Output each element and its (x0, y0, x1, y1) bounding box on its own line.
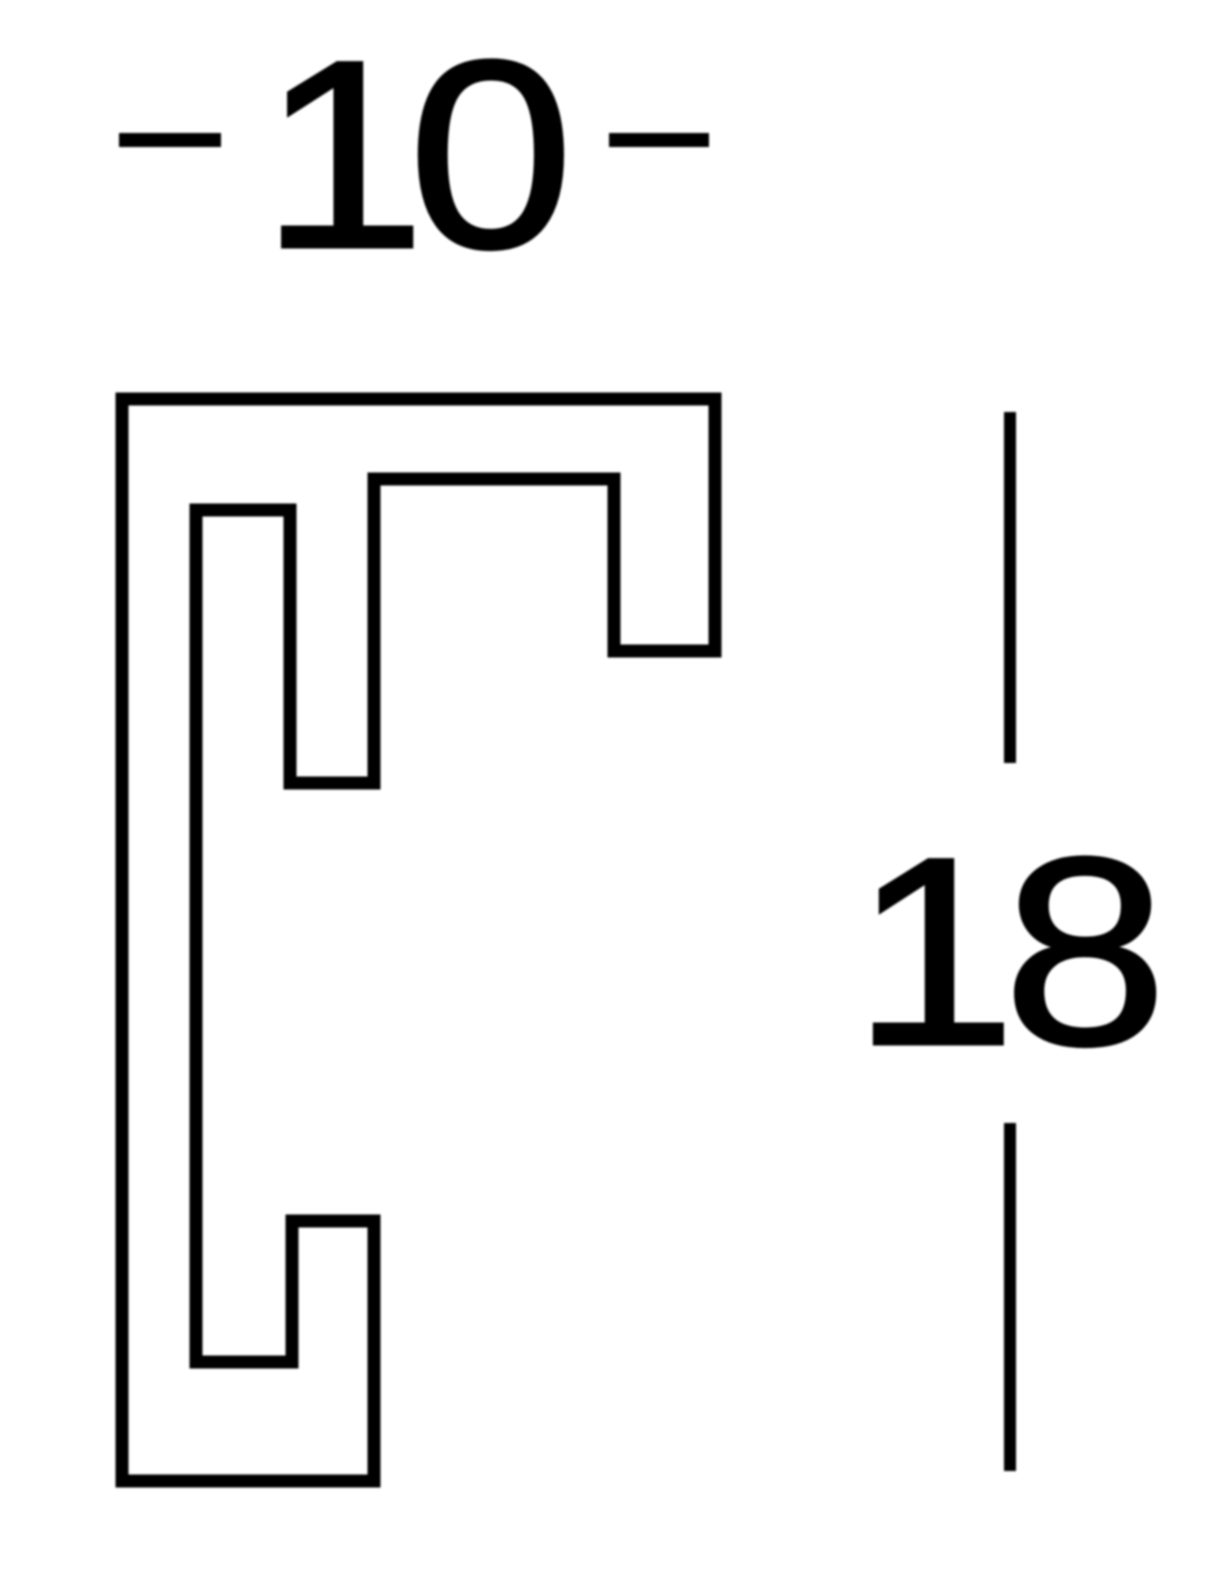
frame profile outline (122, 399, 715, 1481)
right dash of width dimension (609, 133, 709, 147)
upper extension line of height dimension (1004, 412, 1016, 763)
svg-text:18: 18 (852, 801, 1155, 1101)
lower extension line of height dimension (1004, 1123, 1016, 1471)
svg-text:10: 10 (260, 5, 567, 304)
left dash of width dimension (119, 133, 221, 147)
